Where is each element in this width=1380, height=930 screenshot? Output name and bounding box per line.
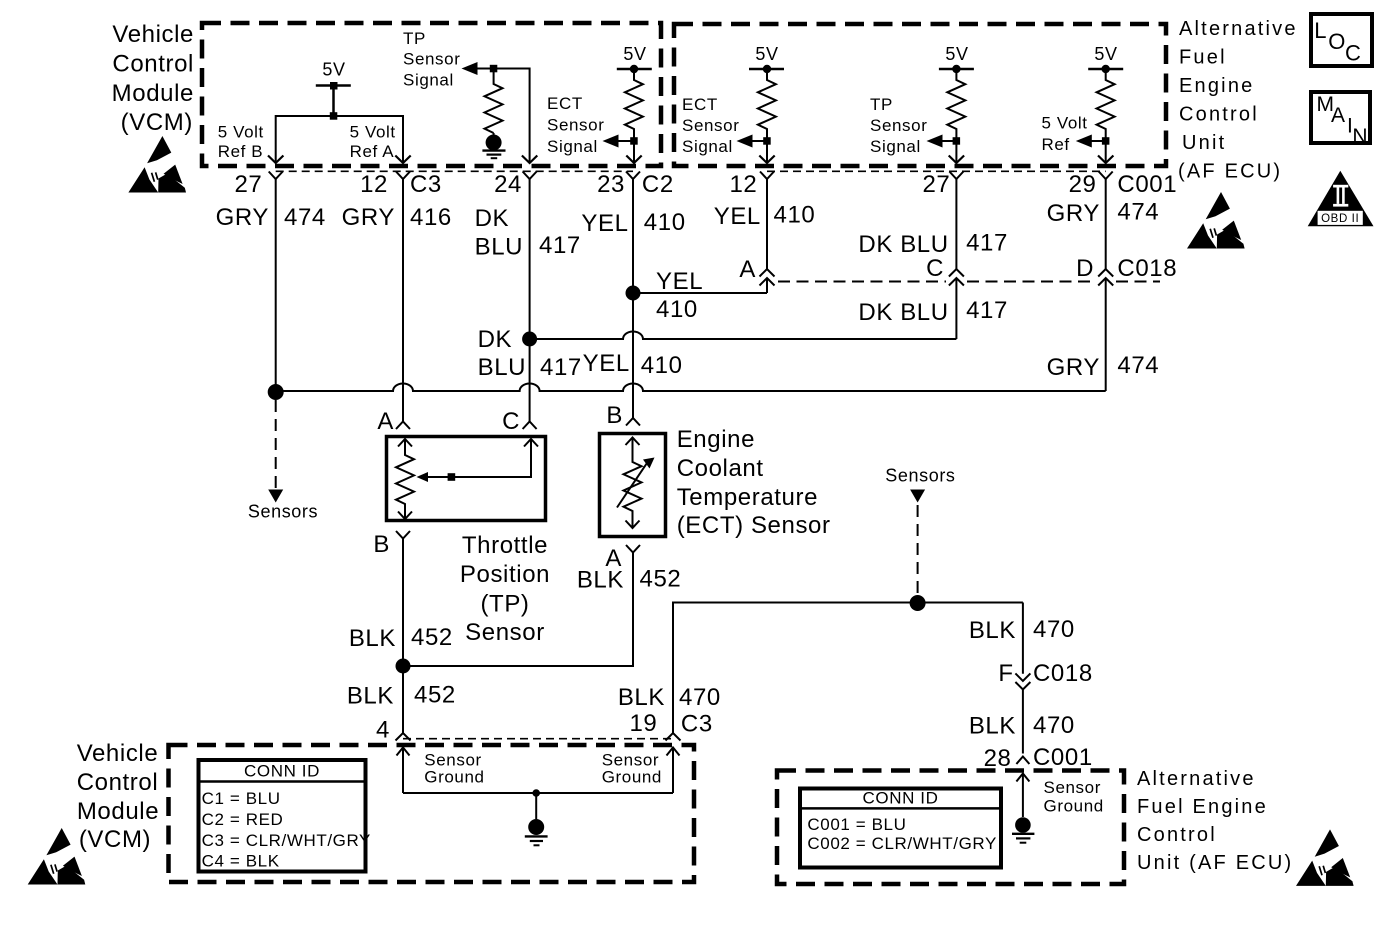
ground G (AF ECU) — [1012, 817, 1034, 843]
svg-text:YEL: YEL — [656, 268, 703, 295]
svg-text:C001: C001 — [1033, 744, 1093, 771]
svg-text:23: 23 — [597, 171, 625, 198]
svg-text:Signal: Signal — [870, 137, 921, 156]
icon MAIN (main section) — [1311, 92, 1370, 148]
svg-text:Ref A: Ref A — [350, 142, 395, 161]
wire BLK 470 (down right side) — [1022, 603, 1024, 674]
wire BLK 452 (node to pin 4) — [402, 666, 404, 733]
svg-text:GRY: GRY — [342, 204, 395, 231]
svg-text:Ref B: Ref B — [218, 142, 264, 161]
CONN ID table (AF ECU) — [798, 789, 1001, 868]
wire YEL 410 vertical (pin 23 C2 to ECT pin B) — [632, 179, 634, 418]
module box VCM (bottom, thick dashed) — [169, 745, 695, 882]
svg-text:CONN ID: CONN ID — [244, 762, 320, 781]
pin 23 C2 fork — [626, 172, 640, 180]
svg-text:Alternative: Alternative — [1179, 18, 1298, 40]
label Sensor Ground (AF) — [1044, 778, 1104, 816]
svg-text:DK BLU: DK BLU — [858, 231, 948, 258]
potentiometer TP (resistive track) — [396, 439, 414, 519]
svg-text:5V: 5V — [322, 60, 345, 80]
junction dot ground tap (VCM) — [532, 789, 540, 797]
ground (VCM internal) — [482, 133, 505, 158]
junction dot 5V bar AF2 — [952, 65, 960, 73]
svg-text:Control: Control — [1179, 104, 1259, 126]
svg-text:BLK: BLK — [969, 713, 1016, 740]
svg-text:O: O — [1328, 29, 1346, 54]
svg-text:12: 12 — [729, 171, 757, 198]
svg-text:(TP): (TP) — [480, 591, 529, 618]
svg-text:BLU: BLU — [478, 354, 526, 381]
connector C018 pin F (inline) — [1015, 673, 1030, 753]
label 5 Volt Ref B — [218, 123, 264, 162]
svg-text:410: 410 — [656, 296, 698, 323]
junction dot 5V bar AF3 — [1102, 65, 1110, 73]
arrow up sensor ground (pin 4, inside VCM) — [397, 748, 410, 794]
svg-text:27: 27 — [234, 171, 262, 198]
junction node YEL 410 — [626, 286, 641, 301]
connector face C018 (dashed line) — [778, 281, 1160, 283]
module box AF ECU (top, thick dashed) — [674, 24, 1166, 166]
icon LOC (cell location) — [1311, 14, 1372, 66]
svg-text:416: 416 — [410, 204, 452, 231]
connector C018 pin D (inline) — [1098, 269, 1113, 391]
svg-text:B: B — [373, 531, 390, 558]
svg-text:27: 27 — [922, 171, 950, 198]
wire to other sensors (dashed, left) — [275, 400, 277, 489]
svg-text:YEL: YEL — [583, 350, 630, 377]
svg-text:Sensor: Sensor — [547, 116, 604, 135]
svg-text:Coolant: Coolant — [677, 455, 764, 482]
svg-text:OBD II: OBD II — [1321, 213, 1359, 225]
module box AF ECU (bottom, thick dashed) — [777, 771, 1124, 885]
svg-text:C: C — [926, 255, 944, 282]
wire BLK 470 horizontal (sensor ground bus) — [673, 603, 1023, 734]
arrow wiper TP — [417, 472, 429, 482]
svg-text:CONN ID: CONN ID — [863, 789, 939, 808]
svg-text:Control: Control — [77, 769, 159, 796]
pin B ECT sensor (half connector) — [626, 418, 640, 426]
wire ECT sensor signal stub (VCM) — [617, 141, 634, 163]
svg-text:YEL: YEL — [581, 210, 628, 237]
svg-text:Ground: Ground — [602, 768, 662, 787]
arrow left ECT Sensor Signal (AF) — [737, 135, 753, 148]
svg-text:BLK: BLK — [349, 625, 396, 652]
arrow down 5 Volt Ref B — [268, 156, 283, 164]
junction dot 5V ref node — [330, 112, 338, 120]
junction dot 5V bar AF1 — [763, 65, 771, 73]
wire 5 Volt Ref distribution — [276, 116, 403, 163]
svg-text:29: 29 — [1069, 171, 1097, 198]
wire TP sensor signal (VCM) — [476, 69, 530, 164]
svg-text:C018: C018 — [1033, 660, 1093, 687]
svg-text:F: F — [998, 660, 1013, 687]
wire DK BLU 417 vertical (pin 27 AF to C018 C) — [955, 179, 957, 269]
svg-text:452: 452 — [414, 682, 456, 709]
svg-text:Vehicle: Vehicle — [77, 740, 159, 767]
arrow left 5 Volt Ref (AF) — [1076, 135, 1092, 148]
svg-text:Control: Control — [112, 51, 194, 78]
svg-text:5V: 5V — [623, 44, 646, 64]
svg-text:Vehicle: Vehicle — [112, 21, 194, 48]
wire BLK 452 (TP B down) — [402, 539, 404, 667]
pin B TP sensor (half connector) — [396, 531, 410, 539]
svg-text:Signal: Signal — [682, 137, 733, 156]
svg-text:5 Volt: 5 Volt — [350, 123, 396, 142]
label TP Sensor Signal (VCM) — [403, 29, 460, 90]
svg-text:Sensor: Sensor — [465, 619, 545, 646]
svg-text:A: A — [1331, 104, 1346, 127]
power 5V supply (VCM ref) — [316, 86, 351, 117]
resistor pull-up TP signal — [485, 69, 503, 134]
power 5V supply (ECT pull-up VCM) — [617, 68, 652, 71]
label ECT Sensor Signal (VCM) — [547, 94, 604, 156]
svg-text:Fuel: Fuel — [1179, 47, 1227, 69]
arrow left ECT Sensor Signal (VCM) — [603, 135, 619, 148]
icon ESD warning (top left) — [128, 136, 186, 193]
svg-text:Sensor: Sensor — [870, 116, 927, 135]
arrow left TP Sensor Signal (AF) — [927, 135, 943, 148]
wire GRY 474 vertical (pin 27 to node) — [275, 179, 277, 392]
icon ESD warning (top right) — [1187, 192, 1245, 249]
wire GRY 474 vertical (pin 29 to C018 D) — [1105, 179, 1107, 269]
svg-text:L: L — [1314, 18, 1327, 43]
svg-text:Sensor: Sensor — [1044, 778, 1101, 797]
svg-text:12: 12 — [360, 171, 388, 198]
pin C TP sensor (half connector) — [523, 422, 537, 430]
svg-text:Ground: Ground — [1044, 797, 1104, 816]
label TP Sensor Signal (AF) — [870, 95, 927, 156]
junction dot ECT signal node (VCM) — [630, 137, 638, 145]
pin 12 C3 fork — [396, 172, 410, 180]
arrow down 5 Volt Ref A — [395, 156, 410, 164]
wire GRY 474 horizontal (C018 D to node, hops) — [276, 384, 1106, 392]
svg-text:N: N — [1352, 125, 1368, 148]
svg-text:410: 410 — [774, 202, 816, 229]
svg-text:452: 452 — [640, 566, 682, 593]
svg-text:474: 474 — [1117, 199, 1159, 226]
svg-text:ECT: ECT — [547, 94, 583, 113]
icon ESD warning (bottom left) — [28, 828, 86, 885]
power 5V supply (ECT pull-up AF) — [749, 68, 784, 71]
ground G (VCM internal, bottom) — [525, 793, 548, 845]
wire YEL 410 vertical (pin 12 AF to C018 A) — [766, 179, 768, 269]
arrow down pin 24 — [522, 156, 537, 164]
pin 19 C3 (half connector, VCM bottom) — [666, 733, 681, 741]
svg-text:B: B — [606, 402, 623, 429]
module box VCM (top, thick dashed) — [202, 23, 661, 166]
svg-text:470: 470 — [1033, 616, 1075, 643]
svg-text:Throttle: Throttle — [462, 532, 548, 559]
svg-text:470: 470 — [679, 684, 721, 711]
svg-text:C002 = CLR/WHT/GRY: C002 = CLR/WHT/GRY — [807, 834, 997, 853]
svg-text:417: 417 — [540, 354, 582, 381]
junction dot 5V bar 2 — [630, 65, 638, 73]
svg-text:Sensor: Sensor — [403, 50, 460, 69]
arrow down from Sensors (right) — [910, 490, 925, 503]
resistor pull-up TP signal (AF) — [947, 69, 965, 141]
svg-text:5V: 5V — [755, 44, 778, 64]
arrow down pin 23 — [626, 156, 641, 164]
resistor 5 volt ref (AF) — [1097, 69, 1115, 141]
svg-text:Temperature: Temperature — [677, 484, 818, 511]
svg-text:C1 = BLU: C1 = BLU — [202, 789, 281, 808]
svg-text:Sensor: Sensor — [682, 116, 739, 135]
wire BLK 452 (ECT A down and left) — [403, 553, 633, 667]
svg-text:452: 452 — [411, 624, 453, 651]
pin 24 fork — [523, 172, 537, 180]
arrow up sensor ground (pin 19, inside VCM) — [667, 748, 680, 794]
svg-text:Module: Module — [112, 80, 194, 107]
engine coolant temperature ECT sensor box — [600, 434, 666, 537]
wire sensor ground bus (inside VCM) — [403, 792, 673, 794]
svg-text:19: 19 — [629, 710, 657, 737]
svg-text:5V: 5V — [945, 44, 968, 64]
junction dot wiper — [448, 473, 456, 481]
label Alternative Fuel Engine Control Unit (AF ECU) top-right — [1178, 18, 1298, 183]
svg-text:Module: Module — [77, 798, 159, 825]
svg-text:410: 410 — [644, 209, 686, 236]
power 5V supply (5 Volt Ref AF) — [1088, 68, 1123, 71]
label ECT Sensor Signal (AF) — [682, 95, 739, 156]
svg-text:A: A — [739, 256, 756, 283]
wiper arm TP (from pin C) — [427, 439, 538, 477]
wire DK BLU 417 vertical (pin 24 to TP pin C) — [529, 179, 531, 422]
svg-text:DK: DK — [478, 326, 513, 353]
svg-text:Engine: Engine — [1179, 75, 1254, 97]
svg-text:GRY: GRY — [1047, 354, 1100, 381]
label 5 Volt Ref A — [350, 123, 396, 162]
svg-text:4: 4 — [376, 717, 390, 744]
label Engine Coolant Temperature (ECT) Sensor — [677, 426, 831, 539]
wire YEL 410 horizontal (C018 A to node) — [633, 292, 767, 294]
pin 29 C001 fork — [1099, 172, 1113, 180]
junction dot TP signal node (AF) — [953, 137, 961, 145]
arrow down pin 27 AF — [949, 156, 964, 164]
svg-text:C: C — [502, 408, 520, 435]
svg-text:Signal: Signal — [403, 71, 454, 90]
connector face bottom VCM (thin dashed) — [403, 738, 673, 740]
arrow up sensor ground (pin 28, inside AF ECU) — [1016, 774, 1029, 818]
wire GRY 416 vertical (pin 12 C3 to TP pin A) — [402, 179, 404, 422]
svg-text:Fuel Engine: Fuel Engine — [1137, 796, 1268, 818]
svg-text:Control: Control — [1137, 824, 1217, 846]
svg-text:C001: C001 — [1117, 171, 1177, 198]
junction dot ECT signal node (AF) — [763, 137, 771, 145]
svg-text:TP: TP — [403, 29, 426, 48]
label Vehicle Control Module (VCM) bottom-left — [77, 740, 159, 853]
label Throttle Position (TP) Sensor — [460, 532, 550, 646]
svg-text:(ECT) Sensor: (ECT) Sensor — [677, 512, 831, 539]
svg-text:C2 = RED: C2 = RED — [202, 810, 284, 829]
junction node BLK 452 — [396, 659, 411, 674]
svg-text:Sensors: Sensors — [248, 502, 318, 522]
wire to other sensors (dashed, right) — [917, 505, 919, 597]
svg-text:24: 24 — [494, 171, 522, 198]
resistor pull-up ECT signal (AF) — [758, 69, 776, 141]
svg-text:C001 = BLU: C001 = BLU — [807, 815, 906, 834]
arrow thermistor (variable) — [643, 458, 655, 469]
label Sensor Ground (pin 4) — [424, 751, 484, 787]
svg-text:Unit (AF ECU): Unit (AF ECU) — [1137, 852, 1293, 874]
label Sensor Ground (pin 19) — [602, 751, 662, 787]
icon OBD II — [1308, 171, 1374, 226]
label Alternative Fuel Engine Control Unit (AF ECU) bottom-right — [1137, 768, 1293, 874]
pin 27 AF fork — [949, 172, 963, 180]
svg-text:C: C — [1345, 41, 1362, 66]
svg-text:5V: 5V — [1094, 44, 1117, 64]
connector C018 pin A (inline) — [760, 269, 775, 293]
svg-text:Sensors: Sensors — [885, 466, 955, 486]
svg-text:C3: C3 — [681, 711, 713, 738]
connector face C001 (AF ECU, thin dashed) — [767, 170, 1106, 172]
throttle position sensor TP box — [387, 437, 546, 521]
svg-text:474: 474 — [284, 204, 326, 231]
svg-text:Position: Position — [460, 561, 550, 588]
svg-text:TP: TP — [870, 95, 893, 114]
label Vehicle Control Module (VCM) top-left — [112, 21, 194, 136]
CONN ID table (VCM) — [197, 760, 372, 872]
svg-text:BLK: BLK — [347, 683, 394, 710]
wire DK BLU 417 horizontal (C018 C to node, hop at YEL) — [530, 332, 957, 340]
svg-text:5 Volt: 5 Volt — [218, 123, 264, 142]
svg-text:5 Volt: 5 Volt — [1042, 114, 1088, 133]
svg-text:Signal: Signal — [547, 137, 598, 156]
svg-text:YEL: YEL — [714, 203, 761, 230]
junction node sensors (right) — [910, 595, 926, 611]
pin 27 VCM fork — [269, 172, 283, 180]
arrow down pin 29 AF — [1098, 156, 1113, 164]
svg-text:Unit: Unit — [1182, 132, 1226, 154]
resistor pull-up ECT signal (VCM) — [625, 69, 643, 141]
pin 12 AF fork — [760, 172, 774, 180]
icon ESD warning (bottom right) — [1296, 829, 1354, 886]
wire TP sensor signal stub (AF) — [941, 141, 956, 163]
wire ECT sensor signal stub (AF) — [751, 141, 767, 163]
junction dot 5 volt ref node (AF) — [1102, 137, 1110, 145]
pin 4 C3 (half connector, VCM bottom) — [396, 733, 411, 741]
svg-text:DK BLU: DK BLU — [858, 299, 948, 326]
arrow down pin 12 AF — [759, 156, 774, 164]
svg-text:BLK: BLK — [969, 617, 1016, 644]
svg-text:(AF ECU): (AF ECU) — [1178, 161, 1282, 183]
svg-text:28: 28 — [984, 745, 1012, 772]
junction dot 5V bar — [330, 82, 338, 90]
connector face C3/C2 (VCM, thin dashed) — [276, 170, 633, 172]
svg-text:C2: C2 — [642, 171, 674, 198]
svg-text:(VCM): (VCM) — [121, 109, 193, 136]
svg-text:417: 417 — [966, 297, 1008, 324]
svg-text:410: 410 — [641, 352, 683, 379]
svg-text:BLK: BLK — [618, 684, 665, 711]
thermistor ECT — [617, 438, 647, 529]
svg-text:BLK: BLK — [577, 567, 624, 594]
svg-text:A: A — [377, 408, 394, 435]
svg-text:Ground: Ground — [424, 768, 484, 787]
pin A TP sensor (half connector) — [396, 422, 410, 430]
wire 5 volt ref stub (AF) — [1090, 141, 1105, 163]
pin 28 C001 (half connector, AF bottom) — [1016, 757, 1029, 765]
svg-text:DK: DK — [475, 205, 510, 232]
svg-text:Engine: Engine — [677, 426, 755, 453]
svg-text:BLU: BLU — [475, 234, 523, 261]
power 5V supply (TP pull-up AF) — [939, 68, 974, 71]
svg-text:D: D — [1076, 255, 1094, 282]
svg-text:C018: C018 — [1117, 255, 1177, 282]
connector C018 pin C (inline) — [949, 269, 964, 339]
svg-text:GRY: GRY — [1047, 200, 1100, 227]
svg-text:C4 = BLK: C4 = BLK — [202, 852, 280, 871]
svg-text:417: 417 — [539, 232, 581, 259]
junction node DK BLU 417 — [522, 332, 537, 347]
svg-text:417: 417 — [966, 230, 1008, 257]
arrow down to Sensors (left) — [268, 490, 283, 503]
svg-text:(VCM): (VCM) — [79, 826, 151, 853]
svg-text:Ref: Ref — [1042, 135, 1070, 154]
svg-text:Alternative: Alternative — [1137, 768, 1256, 790]
pin A ECT sensor (half connector) — [626, 545, 640, 553]
junction dot TP signal / pull-up — [490, 65, 498, 73]
arrow left TP Sensor Signal — [462, 62, 478, 75]
svg-text:470: 470 — [1033, 712, 1075, 739]
junction node GRY 474 / sensors — [268, 384, 284, 400]
svg-text:474: 474 — [1117, 352, 1159, 379]
svg-text:C3 = CLR/WHT/GRY: C3 = CLR/WHT/GRY — [202, 831, 371, 850]
svg-text:GRY: GRY — [216, 204, 269, 231]
svg-text:C3: C3 — [410, 171, 442, 198]
label 5 Volt Ref (AF) — [1042, 114, 1088, 155]
svg-text:ECT: ECT — [682, 95, 718, 114]
